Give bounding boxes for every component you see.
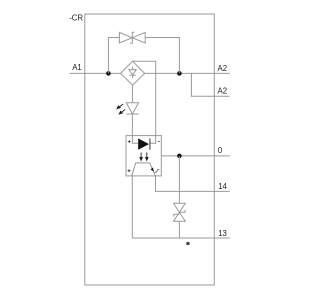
opto phototransistor: [132, 163, 156, 176]
svg-text:13: 13: [218, 229, 227, 238]
LED emission arrow 1: [117, 104, 123, 109]
opto emitter arrowhead: [151, 168, 154, 172]
junction dot A: [106, 71, 111, 76]
opto LED cathode bar: [149, 138, 151, 149]
wire 0 line from opto box to terminal 0: [161, 155, 229, 157]
wire opto collector down to terminal 13 rail: [131, 176, 133, 238]
svg-text:A1: A1: [72, 63, 82, 72]
svg-text:A2: A2: [218, 87, 228, 96]
opto minus marker top: [158, 141, 160, 143]
optocoupler box: [126, 136, 161, 176]
wire A1 to bridge left vertex: [70, 72, 121, 74]
TVS suppressor F1 (bidirectional, horizontal): [119, 32, 145, 43]
LED emission arrow 2: [119, 110, 125, 115]
opto emitter squiggle: [155, 169, 159, 172]
wire LED cathode down to opto anode pin: [132, 114, 138, 143]
TVS suppressor F2 (bidirectional, vertical): [174, 203, 186, 221]
wire bridge bottom vertex down to LED: [131, 85, 133, 103]
opto plus marker top: [128, 140, 131, 143]
svg-text:A2: A2: [218, 64, 228, 73]
junction dot B: [177, 71, 182, 76]
opto coupling arrow right: [146, 153, 148, 161]
junction dot C: [177, 154, 182, 159]
wire dot C down to TVS F2: [178, 156, 180, 203]
svg-text:14: 14: [218, 182, 227, 191]
opto plus marker bottom: [128, 169, 131, 172]
wire dot A up to TVS F1: [108, 38, 119, 74]
wire second A2 branch: [191, 73, 229, 96]
svg-text:-CR: -CR: [69, 14, 83, 23]
outer enclosure box -CR: [85, 14, 215, 285]
wire TVS F2 down to 13 rail: [178, 221, 180, 238]
wire bridge right vertex to A2 terminal: [145, 72, 230, 74]
svg-text:0: 0: [218, 146, 223, 155]
bridge internal diode: [129, 67, 136, 78]
wire opto emitter down then right to terminal 14: [156, 176, 230, 192]
wire TVS F1 right then down to dot B: [145, 38, 179, 74]
opto coupling arrow left: [140, 153, 142, 161]
LED indicator: [126, 103, 138, 114]
wire terminal 13 rail: [132, 237, 229, 239]
bridge rectifier V1 diamond: [121, 61, 145, 85]
wire bridge top vertex right and down to opto cathode pin: [133, 61, 156, 143]
label asterisk: [186, 242, 189, 245]
opto LED filled triangle: [138, 138, 149, 149]
